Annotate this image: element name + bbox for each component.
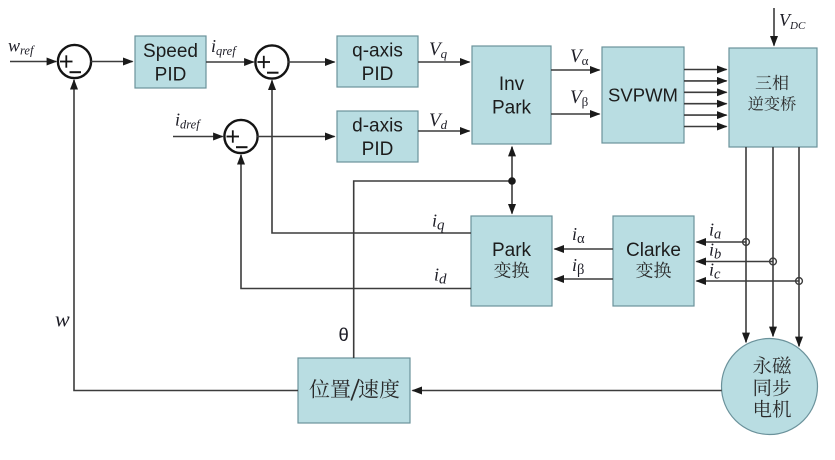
svg-text:w: w [55,307,70,332]
wire: SVPWM PWM signal 4 to inverter [684,103,727,105]
wire: S3 to d-axis PID [257,136,335,138]
svg-text:PID: PID [155,65,187,86]
block: Park transform (Park bian-huan) [471,216,552,306]
summing junction S3 (d current loop) [224,120,257,153]
wire: d-axis PID to Inv Park (V_d) [418,130,470,132]
wire: inverter phase b down to motor [772,147,774,336]
wire: w_ref input to S1 [10,61,56,63]
wire: SVPWM PWM signal 6 to inverter [684,126,727,128]
wire: theta branch down into Park [511,181,513,214]
svg-text:Park: Park [492,98,532,119]
wire: SVPWM PWM signal 5 to inverter [684,114,727,116]
wire: SVPWM PWM signal 3 to inverter [684,91,727,93]
wire: inverter phase c down to motor [798,147,800,346]
svg-text:Inv: Inv [499,74,525,95]
block: Speed PID [135,36,206,88]
block: position/speed sensor (wei-zhi/su-du) [298,358,410,423]
tap junction on phase a [743,239,750,246]
wire: motor to position/speed block [412,390,721,392]
tap junction on phase c [796,278,803,285]
block: three-phase inverter bridge (san-xiang ni-bian-qiao) [729,48,817,147]
block: SVPWM [602,47,684,143]
wire: theta branch up into Inv Park [511,147,513,181]
svg-text:Park: Park [492,240,532,261]
summing junction S2 (q current loop) [255,45,288,78]
wire: Clarke to Park (i_beta) [554,278,613,280]
wire: Speed PID to S2 (i_qref) [206,61,254,63]
svg-text:q-axis: q-axis [352,41,403,62]
wire: V_DC input into inverter top [773,8,775,46]
wire: w feedback to S1 [74,80,298,391]
wire: SVPWM PWM signal 2 to inverter [684,80,727,82]
wire: theta from position block up and right [354,181,512,358]
block: q-axis PID [337,36,418,87]
wire: SVPWM PWM signal 1 to inverter [684,69,727,71]
wire: i_c sense line to Clarke [696,280,799,282]
svg-text:d-axis: d-axis [352,116,403,137]
svg-text:θ: θ [339,324,349,345]
wire: Park i_q feedback to S2 [272,80,471,233]
wire: q-axis PID to Inv Park (V_q) [418,61,470,63]
svg-text:Speed: Speed [143,41,198,62]
wire: Inv Park to SVPWM (V_beta) [551,113,600,115]
svg-text:PID: PID [362,139,394,160]
wire: i_dref input to S3 [173,136,223,138]
summing junction S1 (speed loop) [58,45,91,78]
wire: Clarke to Park (i_alpha) [554,248,613,250]
svg-text:Clarke: Clarke [626,240,681,261]
wire: S1 to Speed PID [91,61,133,63]
junction dot theta node [508,177,516,185]
block: PMSM motor circle (yong-ci tong-bu dian-ji) [722,339,818,435]
svg-text:PID: PID [362,64,394,85]
wire: S2 to q-axis PID [288,61,335,63]
svg-text:SVPWM: SVPWM [608,85,678,106]
block: d-axis PID [337,111,418,162]
wire: inverter phase a down to motor [745,147,747,342]
wire: Park i_d feedback to S3 [241,155,471,289]
wire: i_a sense line to Clarke [696,241,746,243]
block: Clarke transform (Clarke bian-huan) [613,216,694,306]
wire: i_b sense line to Clarke [696,261,773,263]
block: Inv Park [472,46,551,144]
tap junction on phase b [770,258,777,265]
wire: Inv Park to SVPWM (V_alpha) [551,69,600,71]
